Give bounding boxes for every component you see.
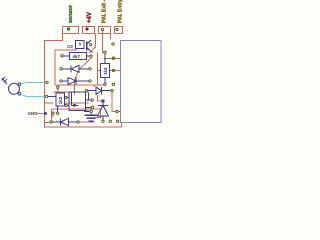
wire net entry down <box>110 34 112 40</box>
svg-text:sensor: sensor <box>68 4 74 23</box>
wire pad114 to big box <box>104 57 120 59</box>
pad stub above D5 <box>52 112 54 114</box>
resistor R1 4k7 <box>70 53 87 60</box>
diode D1 (points left) <box>60 68 62 70</box>
pad between R3 and K1 <box>65 96 67 98</box>
K1 right pads <box>91 99 93 101</box>
svg-text:4k7: 4k7 <box>73 54 81 59</box>
R3 left pin from cyan <box>48 96 56 98</box>
svg-text:GND: GND <box>28 111 39 116</box>
svg-text:1k2: 1k2 <box>103 67 108 75</box>
junction dot K1 <box>73 104 76 107</box>
resistor R2 1k2 vertical right <box>101 64 110 78</box>
wire diagonal from R1 out to diodes <box>75 58 92 95</box>
wire D3 right down to pad <box>112 92 120 112</box>
wire zener top feed <box>98 95 102 101</box>
wire y103.5 horizontal through K1 <box>45 102 90 104</box>
big box U1 <box>121 41 162 123</box>
svg-text:+4V: +4V <box>87 12 93 23</box>
svg-text:PAL Entry -: PAL Entry - <box>118 0 124 23</box>
connector J1 top header cells <box>63 27 123 34</box>
wire GND label stub <box>37 113 46 115</box>
diode D2 (points right) <box>60 80 62 82</box>
pad lower left of K1 <box>65 104 67 106</box>
wire link to D5 pad <box>45 122 50 124</box>
R3 top pad <box>57 86 59 88</box>
ground symbol <box>84 110 90 112</box>
wire stub to D3 <box>93 85 95 88</box>
diode D4 zener vertical <box>102 99 105 102</box>
pin pad +4V <box>85 27 88 30</box>
diode D5 bottom (points left) <box>50 121 52 123</box>
component K1 box <box>69 92 86 110</box>
pin pad PAL Entry <box>116 28 118 30</box>
wire net +4V down with diagonal <box>89 34 96 54</box>
transistor T1 body box <box>76 41 85 49</box>
diode D3 pad left <box>85 90 87 92</box>
diode D3 body <box>88 87 111 94</box>
wire cyan top <box>21 83 46 84</box>
resistor R3 1k2 vertical left <box>56 93 65 106</box>
wire vertical x97 <box>97 53 99 85</box>
diode D3 pad right <box>111 90 113 92</box>
wire net y108.8 long horizontal <box>52 109 101 118</box>
wire K1 pin corner <box>86 93 89 101</box>
pin pad sensor <box>67 27 70 30</box>
svg-text:PAL Exit -: PAL Exit - <box>102 0 108 23</box>
R3 bottom pin <box>57 106 59 112</box>
wire y70 across R2 <box>98 70 121 72</box>
pin pad PAL Exit <box>101 28 103 30</box>
wire cyan bottom <box>21 94 45 97</box>
wire net sensor: left loop down <box>45 34 122 127</box>
wire D5 riser <box>51 109 53 121</box>
connector X1 plug <box>9 83 20 94</box>
svg-text:1k2: 1k2 <box>58 96 63 104</box>
wire base net horizontal+vertical x55 <box>54 50 104 92</box>
wire net exit down <box>103 31 104 52</box>
wire D5 right pad to gnd zone <box>79 121 95 123</box>
junction dot GND <box>44 112 47 115</box>
svg-text:C0: C0 <box>67 44 73 49</box>
transistor T1 bar and legs <box>86 42 88 51</box>
